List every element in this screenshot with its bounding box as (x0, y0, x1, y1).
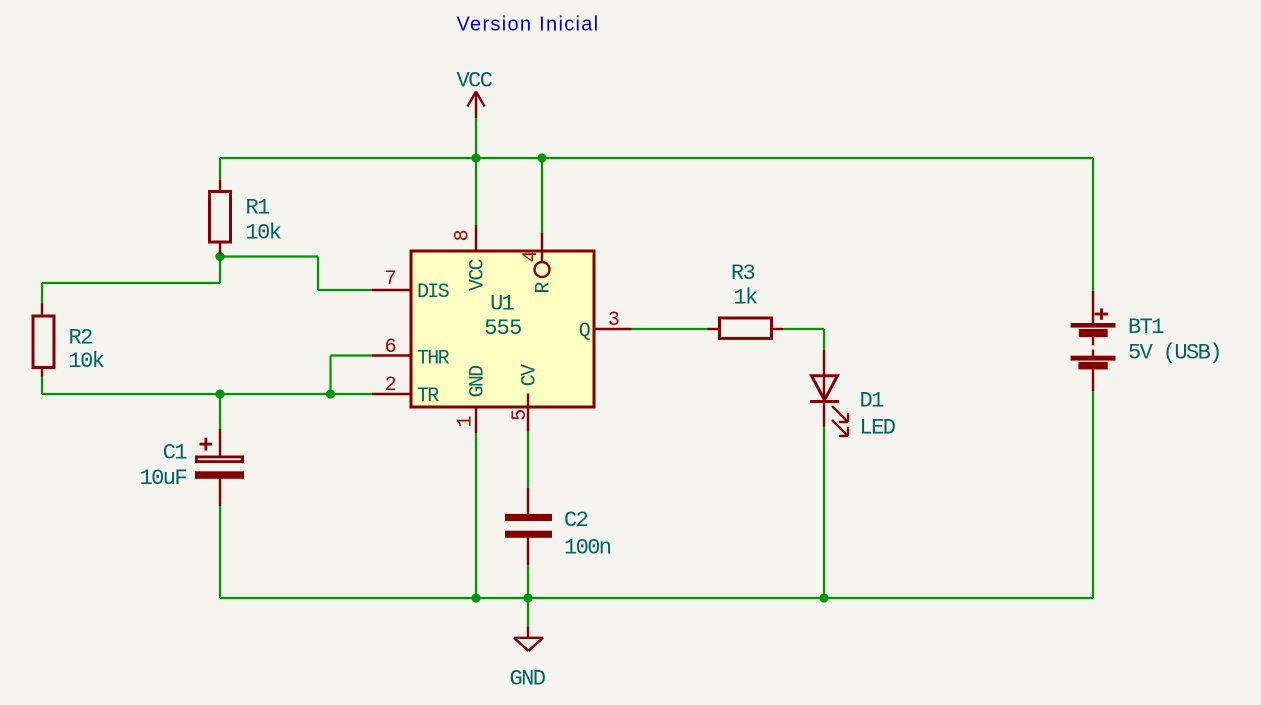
svg-text:2: 2 (385, 374, 396, 397)
wire: DIS net to pin 7 (318, 289, 372, 291)
pin 1 GND stub (475, 408, 477, 433)
wire: rail to GND symbol (527, 598, 529, 627)
wire: rail down to pin 8 (475, 158, 477, 225)
battery BT1 (1071, 291, 1116, 391)
power symbol GND (514, 627, 543, 651)
svg-text:BT1: BT1 (1128, 315, 1164, 340)
svg-text:7: 7 (385, 268, 396, 291)
wire: pin 5 down to C2 (527, 432, 529, 489)
pin 4 R stub with invert bubble (541, 233, 543, 262)
capacitor C2 (505, 488, 552, 565)
wire: R2 bottom down (41, 377, 43, 395)
junction pin1 on ground rail (471, 593, 480, 602)
svg-text:100n: 100n (564, 536, 611, 561)
wire: R1 bottom junction down (219, 254, 221, 283)
wire: horizontal to R2 branch (42, 282, 220, 284)
junction at THR branch on TR rail (326, 389, 335, 398)
op-amp U1 555 timer body (411, 251, 594, 407)
pin 2 TR stub (372, 393, 411, 395)
pin 7 DIS stub (372, 289, 411, 291)
junction at C1 top on TR rail (215, 389, 224, 398)
junction at pin4 column on top rail (537, 153, 546, 162)
junction LED on ground rail (819, 593, 828, 602)
wire: bottom ground rail (220, 597, 1093, 599)
wire: TR net rail to pin 2 (42, 393, 372, 395)
resistor R3 (707, 318, 783, 338)
svg-text:1k: 1k (733, 286, 758, 311)
svg-text:THR: THR (417, 348, 450, 371)
svg-text:D1: D1 (860, 389, 885, 414)
svg-text:3: 3 (608, 309, 619, 332)
svg-text:VCC: VCC (457, 69, 493, 94)
resistor R2 (33, 304, 54, 377)
svg-text:10k: 10k (246, 221, 282, 246)
pin 8 VCC stub (475, 225, 477, 250)
wire: rail down to pin 4 (541, 158, 543, 233)
svg-text:555: 555 (484, 316, 521, 341)
wire: pin 1 GND down to rail (475, 433, 477, 598)
wire: THR branch to pin 6 (331, 354, 373, 356)
svg-text:GND: GND (510, 667, 546, 692)
svg-text:DIS: DIS (417, 281, 450, 304)
svg-text:LED: LED (860, 416, 896, 441)
svg-text:10uF: 10uF (140, 466, 187, 491)
capacitor C1 polarized (195, 429, 244, 506)
junction at VCC column on top rail (471, 153, 480, 162)
svg-text:5V (USB): 5V (USB) (1128, 341, 1221, 366)
pin 3 Q stub (595, 328, 632, 330)
svg-text:VCC: VCC (467, 258, 490, 291)
wire: VCC symbol to rail (475, 118, 477, 158)
wire: pin 3 Q to R3 (632, 328, 708, 330)
svg-text:R2: R2 (69, 326, 93, 351)
svg-text:Version Inicial: Version Inicial (457, 14, 600, 36)
pin 6 THR stub (372, 354, 411, 356)
power symbol VCC (468, 92, 485, 119)
svg-text:4: 4 (520, 251, 543, 262)
wire: DIS net horizontal from R1 junction (220, 255, 318, 257)
svg-text:R3: R3 (731, 261, 755, 286)
svg-text:6: 6 (385, 336, 396, 359)
svg-text:TR: TR (417, 385, 439, 408)
wire: junction down to C1 top (219, 394, 221, 429)
wire: down to R2 top (41, 283, 43, 304)
wire: BT1 top from rail (1092, 158, 1094, 291)
svg-text:U1: U1 (490, 292, 515, 317)
wire: R3 to LED corner (783, 328, 824, 330)
svg-text:Q: Q (579, 320, 591, 343)
junction at R1 bottom (215, 252, 224, 261)
wire: down to LED anode (823, 329, 825, 350)
svg-text:CV: CV (519, 364, 542, 386)
wire: BT1 bottom to rail (1092, 391, 1094, 598)
wire: top rail VCC net (220, 157, 1093, 159)
svg-text:R: R (533, 282, 556, 294)
wire: C1 bottom to ground rail (219, 506, 221, 598)
wire: R1 top to rail (219, 158, 221, 180)
svg-text:5: 5 (509, 410, 532, 421)
svg-text:C1: C1 (163, 441, 188, 466)
junction C2/GND on ground rail (523, 593, 532, 602)
svg-text:C2: C2 (564, 508, 588, 533)
resistor R1 (210, 180, 231, 254)
wire: DIS net vertical (317, 257, 319, 291)
pin 5 CV stub (527, 394, 529, 432)
wire: LED cathode to rail (823, 427, 825, 599)
LED D1 (810, 350, 848, 436)
svg-text:1: 1 (455, 415, 478, 427)
wire: C2 bottom to rail (527, 565, 529, 598)
wire: THR branch vertical (329, 356, 331, 395)
svg-text:8: 8 (452, 230, 475, 241)
svg-text:GND: GND (467, 366, 490, 398)
svg-text:R1: R1 (246, 196, 271, 221)
svg-text:10k: 10k (69, 349, 105, 374)
